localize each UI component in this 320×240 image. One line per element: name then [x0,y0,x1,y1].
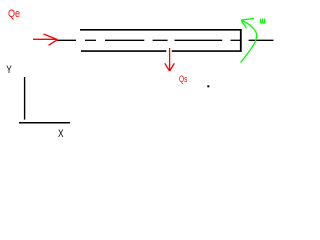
svg-text:Qe: Qe [8,8,20,20]
svg-text:Y: Y [6,64,12,76]
svg-text:Qs: Qs [179,74,188,85]
svg-text:X: X [58,128,64,140]
